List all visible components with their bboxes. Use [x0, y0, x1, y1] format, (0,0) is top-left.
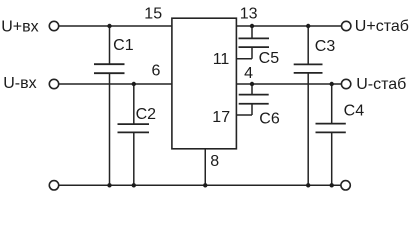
node: junction C4 / pin 4 wire — [330, 82, 334, 86]
node: junction pin 8 / bottom rail — [203, 183, 207, 187]
node: junction C1 / bottom rail — [107, 183, 111, 187]
capacitor C1 — [94, 26, 125, 185]
terminal U+stab — [342, 21, 351, 30]
capacitor C4 — [316, 84, 346, 185]
terminal U-vx — [49, 79, 58, 88]
terminal U-stab — [341, 79, 350, 88]
capacitor C3 — [294, 26, 323, 185]
capacitor C5 — [239, 26, 270, 59]
wire pin 17 to C6 — [236, 114, 252, 116]
svg-text:8: 8 — [210, 153, 219, 170]
capacitor C6 — [239, 84, 269, 115]
svg-text:4: 4 — [244, 65, 253, 82]
svg-text:C6: C6 — [259, 111, 280, 128]
node: junction C5 / pin 13 wire — [250, 24, 254, 28]
svg-text:17: 17 — [212, 109, 230, 126]
svg-text:C2: C2 — [136, 106, 157, 123]
op-amp U1 (regulator IC body) — [172, 18, 237, 149]
wire bottom rail — [59, 184, 341, 186]
svg-text:13: 13 — [240, 6, 258, 23]
svg-text:C5: C5 — [259, 50, 280, 67]
svg-text:15: 15 — [144, 6, 162, 23]
svg-text:C4: C4 — [344, 103, 365, 120]
svg-text:U-стаб: U-стаб — [356, 76, 406, 93]
svg-text:C1: C1 — [113, 37, 134, 54]
terminal bottom-right — [341, 181, 350, 190]
wire pin 8 to bottom rail — [204, 149, 206, 186]
svg-text:6: 6 — [152, 63, 161, 80]
wire mid-right (pin 4 to U-stab) — [236, 83, 341, 85]
svg-text:U-вх: U-вх — [3, 75, 36, 92]
svg-text:C3: C3 — [315, 38, 336, 55]
node: junction C4 / bottom rail — [330, 183, 334, 187]
node: junction C2 / bottom rail — [132, 183, 136, 187]
svg-text:11: 11 — [213, 51, 230, 68]
terminal U+vx — [49, 21, 58, 30]
wire top-right (pin 13 to U+stab) — [236, 25, 341, 27]
wire mid-left (U-vx to pin 6) — [59, 83, 172, 85]
terminal bottom-left — [49, 181, 58, 190]
wire pin 11 to C5 — [236, 58, 252, 60]
wire top-left (U+vx to pin 15) — [59, 25, 172, 27]
node: junction C3 / bottom rail — [306, 183, 310, 187]
node: junction C6 / pin 4 wire — [250, 82, 254, 86]
capacitor C2 — [118, 84, 150, 185]
node: junction C1 / U+vx wire — [107, 24, 111, 28]
svg-text:U+стаб: U+стаб — [355, 18, 409, 35]
node: junction C3 / pin 13 wire — [306, 24, 310, 28]
node: junction C2 / U-vx wire — [132, 82, 136, 86]
svg-text:U+вх: U+вх — [1, 18, 38, 35]
